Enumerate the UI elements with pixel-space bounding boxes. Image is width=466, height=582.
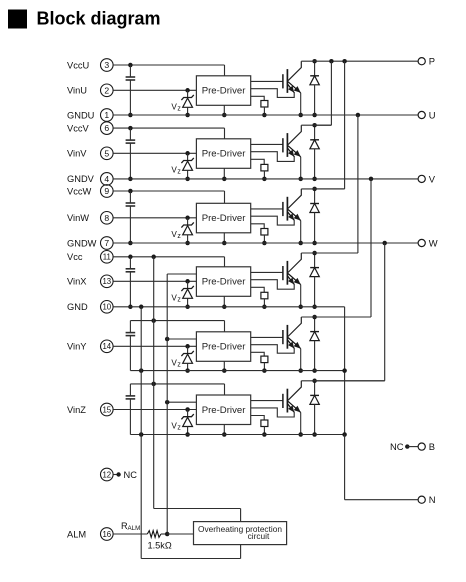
svg-text:Pre-Driver: Pre-Driver [202, 342, 247, 353]
svg-text:VccV: VccV [67, 123, 89, 133]
svg-text:GND: GND [67, 302, 88, 312]
wire overheat circuit ground return [141, 545, 240, 559]
svg-text:8: 8 [104, 213, 109, 223]
terminal V [418, 173, 436, 184]
svg-text:13: 13 [102, 277, 111, 286]
pin 11 terminal [101, 250, 114, 263]
wire gate Z [251, 400, 283, 402]
svg-text:VinY: VinY [67, 342, 86, 352]
svg-text:1.5kΩ: 1.5kΩ [148, 541, 172, 551]
wire alarm input pre-driver Z [165, 400, 196, 405]
svg-text:1: 1 [104, 110, 109, 120]
overheating protection circuit box [194, 522, 287, 545]
wire alarm bus [166, 274, 168, 534]
svg-text:GNDW: GNDW [67, 238, 97, 248]
wire ALM lead [113, 533, 147, 535]
wire to sense resistor W [251, 224, 265, 229]
wire X emitter rail (GND net) [113, 305, 345, 371]
pin 7 terminal [101, 237, 114, 250]
IGBT QW [283, 189, 303, 245]
svg-text:Pre-Driver: Pre-Driver [202, 86, 247, 97]
svg-text:Pre-Driver: Pre-Driver [202, 213, 247, 224]
svg-text:GNDV: GNDV [67, 174, 95, 184]
svg-text:W: W [429, 237, 438, 248]
wire VinZ net (pin to pre-driver Z) [113, 407, 196, 412]
svg-text:5: 5 [104, 148, 109, 158]
free-wheel diode DV [310, 123, 319, 181]
pin 5 terminal [101, 147, 114, 160]
wire alarm input pre-driver Y [165, 337, 196, 342]
free-wheel diode DY [310, 315, 319, 373]
wire VccW net (pin to pre-driver W) [113, 189, 224, 204]
svg-text:2: 2 [104, 85, 109, 95]
terminal B (NC) [390, 441, 435, 452]
pin 9 terminal [101, 185, 114, 198]
IGBT QY [283, 317, 303, 373]
sense resistor RV [261, 164, 268, 181]
wire collector rail W [301, 188, 344, 190]
pin 16 terminal [101, 528, 114, 541]
svg-text:16: 16 [102, 530, 111, 539]
capacitor CZ [126, 384, 136, 435]
svg-text:z: z [177, 297, 181, 304]
wire collector rail V [301, 124, 331, 126]
wire VinU net (pin to pre-driver U) [113, 88, 196, 93]
svg-text:VccU: VccU [67, 60, 89, 70]
pin 1 terminal [101, 109, 114, 122]
wire Z emitter rail [130, 432, 346, 437]
wire pre-driver U ground stub [222, 105, 227, 117]
wire Vcc branch to pre-driver Y [130, 318, 224, 331]
svg-text:ALM: ALM [67, 529, 86, 539]
svg-text:VinW: VinW [67, 213, 89, 223]
sense resistor RZ [261, 420, 268, 437]
wire to sense resistor V [251, 159, 265, 164]
pin 8 terminal [101, 212, 114, 225]
svg-text:V: V [429, 173, 436, 184]
zener diode Vz U [181, 90, 193, 117]
svg-text:11: 11 [103, 253, 111, 262]
pin 15 terminal [101, 403, 114, 416]
svg-text:z: z [177, 106, 181, 113]
svg-text:9: 9 [104, 186, 109, 196]
svg-text:P: P [429, 56, 435, 67]
pin 12 terminal [101, 468, 114, 481]
wire GND bus [140, 307, 142, 559]
pin 10 terminal [101, 301, 114, 314]
wire to sense resistor U [251, 96, 265, 100]
pin 14 terminal [101, 340, 114, 353]
svg-text:10: 10 [102, 303, 111, 312]
pre-driver V [196, 139, 250, 169]
svg-text:15: 15 [102, 405, 111, 414]
zener diode Vz X [181, 281, 193, 309]
pre-driver W [196, 203, 250, 233]
svg-text:B: B [429, 441, 435, 452]
wire feed P to W collector [315, 61, 345, 189]
zener diode Vz Y [181, 346, 193, 373]
wire N bus to terminal [345, 435, 419, 500]
wire VinV net (pin to pre-driver V) [113, 151, 196, 156]
free-wheel diode DX [310, 251, 319, 309]
wire to sense resistor X [251, 287, 265, 292]
zener diode Vz V [181, 153, 193, 181]
wire collector rail Y [301, 316, 371, 318]
wire feed V to Y collector [315, 179, 371, 317]
svg-text:Overheating protection: Overheating protection [198, 524, 282, 534]
svg-text:VccW: VccW [67, 186, 91, 196]
pin 6 terminal [101, 122, 114, 135]
svg-text:circuit: circuit [248, 531, 270, 541]
wire U output rail (GNDU net) [113, 113, 418, 118]
wire W output rail (GNDW net) [113, 241, 418, 246]
svg-text:GNDU: GNDU [67, 110, 94, 120]
capacitor CX [126, 257, 136, 309]
wire gate V [251, 143, 283, 145]
svg-text:3: 3 [104, 60, 109, 70]
wire VccU net (pin 3 to pre-driver U) [113, 63, 224, 76]
wire feed U to X collector [315, 115, 358, 253]
terminal P [418, 56, 435, 67]
svg-text:NC: NC [124, 470, 138, 480]
wire Vcc bus [154, 257, 241, 522]
zener diode Vz Z [181, 410, 193, 437]
free-wheel diode DU [310, 59, 319, 117]
terminal W [418, 237, 438, 248]
wire pre-driver Z ground stub [222, 425, 227, 437]
pre-driver U [196, 76, 250, 106]
capacitor CW [126, 191, 136, 245]
svg-text:4: 4 [104, 174, 109, 184]
wire collector rail Z [301, 380, 384, 382]
svg-text:Pre-Driver: Pre-Driver [202, 277, 247, 288]
svg-text:z: z [177, 169, 181, 176]
svg-text:7: 7 [104, 238, 109, 248]
resistor RALM 1.5kohm [147, 531, 193, 538]
pre-driver Y [196, 332, 250, 362]
wire Vcc net (pin 11 to pre-driver X) [113, 255, 224, 267]
svg-text:VinX: VinX [67, 277, 86, 287]
IGBT QX [283, 253, 303, 309]
terminal N [418, 494, 435, 505]
svg-text:z: z [177, 425, 181, 432]
wire sense feedback X [251, 280, 295, 290]
pre-driver Z [196, 395, 250, 425]
wire gate X [251, 271, 283, 273]
IGBT QZ [283, 381, 303, 437]
sense resistor RY [261, 356, 268, 373]
pin 13 terminal [101, 275, 114, 288]
capacitor CV [126, 128, 136, 181]
pin 4 terminal [101, 173, 114, 186]
wire pre-driver V ground stub [222, 168, 227, 181]
svg-text:N: N [429, 494, 436, 505]
svg-text:VinZ: VinZ [67, 405, 86, 415]
wire gate Y [251, 336, 283, 338]
IGBT QU [283, 61, 303, 117]
zener diode Vz W [181, 218, 193, 245]
pin 2 terminal [101, 84, 114, 97]
wire gate U [251, 80, 283, 82]
pre-driver X [196, 267, 250, 297]
wire Y emitter rail [130, 368, 346, 434]
wire VinY net (pin to pre-driver Y) [113, 344, 196, 349]
svg-text:14: 14 [102, 342, 111, 351]
wire sense feedback V [251, 152, 295, 162]
wire sense feedback U [251, 89, 295, 98]
wire to sense resistor Z [251, 416, 265, 421]
free-wheel diode DW [310, 187, 319, 246]
pin 3 terminal [101, 59, 114, 72]
svg-text:Vcc: Vcc [67, 252, 83, 262]
wire pre-driver W ground stub [222, 233, 227, 245]
terminal U [418, 109, 436, 120]
svg-text:VinV: VinV [67, 149, 87, 159]
wire pre-driver Y ground stub [222, 361, 227, 373]
svg-text:U: U [429, 109, 436, 120]
free-wheel diode DZ [310, 379, 319, 437]
wire Vcc branch to pre-driver Z [130, 382, 224, 395]
wire collector rail X [301, 252, 358, 254]
wire alarm input pre-driver X [167, 273, 196, 275]
wire sense feedback W [251, 216, 295, 225]
wire VinX net (pin to pre-driver X) [113, 279, 196, 284]
svg-text:12: 12 [102, 470, 111, 479]
sense resistor RU [261, 101, 268, 118]
sense resistor RX [261, 292, 268, 309]
wire feed P to V collector [315, 61, 332, 125]
wire VccV net (pin to pre-driver V) [113, 126, 224, 139]
wire feed W to Z collector [315, 243, 385, 381]
svg-text:Pre-Driver: Pre-Driver [202, 149, 247, 160]
wire sense feedback Y [251, 345, 295, 354]
capacitor CY [126, 321, 136, 371]
svg-text:z: z [177, 362, 181, 369]
IGBT QV [283, 125, 303, 181]
sense resistor RW [261, 229, 268, 246]
svg-text:ALM: ALM [128, 525, 141, 532]
wire V output rail (GNDV net) [113, 177, 418, 182]
title block [8, 8, 161, 28]
wire sense feedback Z [251, 408, 295, 417]
wire pin 12 NC stub [113, 472, 121, 476]
svg-text:NC: NC [390, 441, 404, 452]
svg-text:Block diagram: Block diagram [37, 8, 161, 28]
svg-text:Pre-Driver: Pre-Driver [202, 405, 247, 416]
svg-text:6: 6 [104, 123, 109, 133]
wire P rail [301, 59, 418, 64]
wire to sense resistor Y [251, 352, 265, 356]
wire gate W [251, 208, 283, 210]
capacitor CU [126, 65, 136, 117]
svg-text:VinU: VinU [67, 86, 87, 96]
svg-text:z: z [177, 233, 181, 240]
wire pre-driver X ground stub [222, 296, 227, 309]
wire VinW net (pin to pre-driver W) [113, 216, 196, 221]
